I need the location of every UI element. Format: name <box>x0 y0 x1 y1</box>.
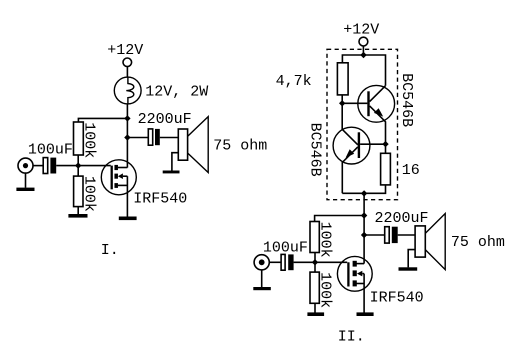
transistor Q1 IRF540 (circuit I MOSFET) <box>101 160 136 195</box>
node A junction <box>124 115 130 121</box>
wire node K down to R6 <box>314 262 316 272</box>
ground (R2) <box>68 214 87 218</box>
ground (speaker I) <box>163 171 180 174</box>
svg-text:100k: 100k <box>81 122 98 158</box>
transistor Q4 IRF540 (circuit II MOSFET) <box>337 256 372 291</box>
ground (R6) <box>307 312 324 316</box>
dashed box (two-transistor current source) <box>327 49 398 199</box>
resistor R6 100k (lower, circuit II) <box>310 272 319 303</box>
wire node E to Q2 base <box>342 102 367 104</box>
wire node B up to R1 <box>77 155 79 166</box>
capacitor C1 100uF (circuit I) <box>43 158 56 174</box>
node H junction <box>361 212 367 218</box>
wire bottom rail of box <box>342 185 385 193</box>
svg-text:+12V: +12V <box>343 21 379 38</box>
lamp L1 12V 2W <box>114 77 141 104</box>
wire node G down main rail to MOSFET drain <box>363 193 365 263</box>
wire node J to capacitor C4 <box>364 234 385 236</box>
input connector J1 (circuit I) <box>18 158 33 173</box>
svg-text:16: 16 <box>402 162 420 179</box>
svg-text:IRF540: IRF540 <box>370 290 424 307</box>
transistor Q2 BC546B (upper) <box>358 85 395 144</box>
svg-text:100k: 100k <box>317 272 334 308</box>
node F junction <box>382 141 388 147</box>
wire connector II to capacitor C3 <box>270 261 281 263</box>
wire node C to capacitor C2 <box>127 137 148 139</box>
resistor R2 100k (lower, circuit I) <box>74 176 83 207</box>
capacitor C3 100uF (circuit II) <box>281 254 294 270</box>
ground (speaker II) <box>399 267 418 270</box>
wire node A to resistor R1 top <box>78 118 127 122</box>
wire capacitor C2 to speaker <box>160 137 179 139</box>
speaker SP2 75 ohm <box>415 214 445 270</box>
capacitor C4 2200uF (circuit II) <box>385 227 398 243</box>
svg-text:BC546B: BC546B <box>398 73 415 127</box>
ground (MOSFET I source) <box>119 217 137 221</box>
node D junction <box>360 52 366 58</box>
node E junction <box>339 100 345 106</box>
ground (input II) <box>253 287 270 290</box>
node C junction (drain/output) <box>124 134 130 140</box>
wire connector to capacitor C1 <box>33 165 43 167</box>
svg-text:100k: 100k <box>81 176 98 212</box>
wire R6 to ground <box>314 303 316 312</box>
svg-text:2200uF: 2200uF <box>138 111 192 128</box>
wire node F to Q3 base <box>360 143 385 145</box>
svg-text:II.: II. <box>338 329 365 346</box>
wire R3 to node E <box>341 95 343 103</box>
svg-text:4,7k: 4,7k <box>276 73 312 90</box>
ground (input I) <box>16 188 34 191</box>
wire capacitor C3 to node K and gate <box>294 261 348 263</box>
wire connector to ground <box>25 173 27 187</box>
svg-text:BC546B: BC546B <box>306 123 323 177</box>
resistor R5 100k (upper, circuit II) <box>310 222 319 253</box>
wire R2 to ground <box>77 207 79 215</box>
transistor Q3 BC546B (lower) <box>333 103 370 193</box>
terminal +12V (circuit II) <box>359 37 368 46</box>
svg-text:75 ohm: 75 ohm <box>451 234 505 251</box>
wire capacitor C4 to speaker <box>398 234 415 236</box>
wire connector II to ground <box>261 270 263 287</box>
wire terminal to node D <box>362 46 364 55</box>
svg-text:2200uF: 2200uF <box>375 210 429 227</box>
wire node K up to R5 <box>314 253 316 263</box>
node G junction <box>361 190 367 196</box>
svg-text:I.: I. <box>101 242 119 259</box>
wire lamp to drain rail <box>126 104 128 168</box>
wire capacitor C1 to node B and gate <box>56 165 110 167</box>
resistor R1 100k (upper, circuit I) <box>74 122 84 155</box>
wire speaker II to ground <box>408 250 415 268</box>
wire source II to ground <box>363 274 365 313</box>
wire node F down to R4 <box>385 144 387 153</box>
ground (MOSFET II source) <box>357 312 374 316</box>
terminal +12V (circuit I) <box>123 58 132 67</box>
wire speaker to ground <box>172 153 178 171</box>
node B junction <box>75 162 81 168</box>
capacitor C2 2200uF (circuit I) <box>148 129 160 145</box>
node J junction (drain/output II) <box>361 232 367 238</box>
svg-text:IRF540: IRF540 <box>133 190 187 207</box>
speaker SP1 75 ohm <box>178 117 208 173</box>
svg-text:12V, 2W: 12V, 2W <box>145 84 208 101</box>
wire node H to R5 top <box>315 216 365 222</box>
svg-text:75 ohm: 75 ohm <box>213 138 267 155</box>
svg-text:100uF: 100uF <box>28 142 73 159</box>
wire terminal to lamp <box>126 67 128 78</box>
input connector J2 (circuit II) <box>254 255 269 270</box>
wire top rail <box>342 55 385 86</box>
svg-text:+12V: +12V <box>107 42 143 59</box>
resistor R4 16 <box>381 153 391 185</box>
wire node B down to R2 <box>77 166 79 177</box>
node K junction <box>312 259 318 265</box>
svg-text:100k: 100k <box>317 222 334 258</box>
wire source to ground <box>126 176 128 216</box>
resistor R3 4,7k <box>337 63 348 95</box>
